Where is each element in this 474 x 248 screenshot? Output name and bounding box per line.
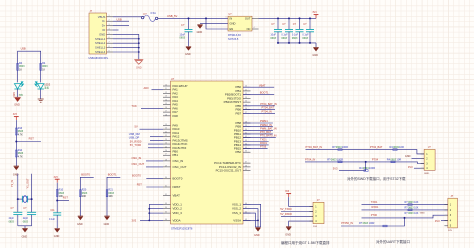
svg-text:C?: C? xyxy=(181,23,185,27)
wire cap bank bottom xyxy=(278,42,316,44)
MCU right pin names xyxy=(214,85,242,222)
wire pin2 xyxy=(412,158,425,160)
svg-text:20: 20 xyxy=(165,128,167,130)
svg-text:Y1_OUT: Y1_OUT xyxy=(25,178,29,189)
svg-text:3V3: 3V3 xyxy=(312,12,317,14)
svg-text:10K: 10K xyxy=(414,206,419,209)
svg-text:VSS_1: VSS_1 xyxy=(232,202,241,206)
svg-text:GND: GND xyxy=(197,31,203,34)
wire VDD bus xyxy=(140,219,163,221)
wire BOOT0 xyxy=(80,177,93,216)
svg-text:LED3: LED3 xyxy=(44,84,51,86)
svg-text:SOT23-5: SOT23-5 xyxy=(228,37,239,41)
wire SHELL1 xyxy=(113,38,139,40)
svg-text:PT06: PT06 xyxy=(371,213,378,217)
junction xyxy=(138,51,140,53)
wire PT04_BAT_IN xyxy=(243,105,275,107)
ground LED D2 xyxy=(38,99,44,102)
wire D+ xyxy=(113,25,129,27)
wire pin4 xyxy=(414,167,424,169)
junction xyxy=(148,208,150,210)
svg-text:RST: RST xyxy=(29,137,35,141)
resistor on SWDIO b xyxy=(393,149,397,151)
junction xyxy=(299,42,301,44)
svg-text:100R: 100R xyxy=(342,145,348,149)
svg-text:USB_DP: USB_DP xyxy=(129,136,140,140)
svg-text:22pF: 22pF xyxy=(23,218,29,220)
svg-text:0603: 0603 xyxy=(180,37,186,40)
svg-text:C?: C? xyxy=(293,22,297,26)
svg-text:GND: GND xyxy=(185,53,191,56)
svg-text:TCK: TCK xyxy=(132,104,137,108)
junction xyxy=(309,17,311,19)
junction xyxy=(148,212,150,214)
svg-text:10K: 10K xyxy=(108,195,113,198)
svg-text:10R: 10R xyxy=(396,158,401,162)
wire RXD1 xyxy=(243,144,269,146)
resistor R4 xyxy=(17,63,19,70)
svg-text:RXD1: RXD1 xyxy=(260,141,267,145)
wire VSS_1 xyxy=(243,204,261,227)
svg-text:对外的UART下载接口: 对外的UART下载接口 xyxy=(376,239,410,244)
wire 3V3 rail xyxy=(259,17,317,19)
svg-text:USB_DM: USB_DM xyxy=(129,132,140,136)
svg-text:STM32F103C8T6: STM32F103C8T6 xyxy=(171,226,193,230)
svg-text:RXD1: RXD1 xyxy=(372,205,379,209)
wire xyxy=(17,89,19,97)
svg-text:12: 12 xyxy=(165,92,167,94)
svg-text:29: 29 xyxy=(165,165,167,167)
svg-text:BOOT0: BOOT0 xyxy=(132,174,141,178)
svg-text:25: 25 xyxy=(165,146,167,148)
svg-text:PB1: PB1 xyxy=(173,153,179,157)
svg-text:RT9013-33: RT9013-33 xyxy=(228,33,241,37)
svg-text:10K: 10K xyxy=(414,201,419,204)
fuse F1 self-recovery xyxy=(141,15,157,21)
svg-text:OSC_OUT: OSC_OUT xyxy=(173,165,187,169)
svg-text:21: 21 xyxy=(245,89,247,91)
svg-text:SHELL2: SHELL2 xyxy=(95,41,106,45)
svg-text:3V3: 3V3 xyxy=(435,219,440,223)
svg-text:SHELL4: SHELL4 xyxy=(95,50,106,54)
wire fuse to regulator xyxy=(158,17,228,19)
svg-text:14: 14 xyxy=(165,99,167,101)
wire J3 pin4 xyxy=(289,221,313,227)
resistor J4 r2 xyxy=(408,209,412,211)
svg-text:GND: GND xyxy=(104,223,110,226)
svg-text:D+: D+ xyxy=(102,24,106,28)
svg-text:PB7: PB7 xyxy=(236,111,242,115)
capacitor C5 xyxy=(309,18,311,29)
svg-text:OSC_OUT: OSC_OUT xyxy=(132,162,145,166)
svg-text:D-: D- xyxy=(102,19,105,23)
LED D2 xyxy=(35,82,44,89)
svg-text:USB-MICRO-5PL: USB-MICRO-5PL xyxy=(89,57,109,60)
svg-text:Y1_IN: Y1_IN xyxy=(10,180,14,187)
svg-text:24: 24 xyxy=(165,143,167,145)
resistor R20 xyxy=(80,190,82,197)
svg-text:VDD_1: VDD_1 xyxy=(173,202,183,206)
capacitor C10 xyxy=(27,212,36,214)
svg-text:C?: C? xyxy=(282,22,286,26)
svg-text:100R: 100R xyxy=(369,222,375,225)
power 3V3 J3 xyxy=(285,191,291,197)
svg-text:13: 13 xyxy=(165,96,167,98)
wire to ground xyxy=(315,43,317,47)
svg-text:22pF: 22pF xyxy=(9,218,15,220)
wire xyxy=(40,89,42,99)
resistor on SWCLK b xyxy=(391,161,395,163)
ground crystal xyxy=(22,228,27,232)
wire ID stub xyxy=(113,29,119,31)
wire VSS rail xyxy=(255,226,260,228)
svg-text:0603: 0603 xyxy=(270,37,276,40)
svg-text:VSS_2: VSS_2 xyxy=(232,207,241,211)
ground divider xyxy=(14,166,19,170)
svg-text:21: 21 xyxy=(165,131,167,133)
resistor R14 xyxy=(15,150,17,157)
svg-text:10R: 10R xyxy=(399,145,404,149)
MCU right pin numbers xyxy=(245,86,247,221)
svg-text:PWM_BAT_IN: PWM_BAT_IN xyxy=(260,126,277,130)
wire J3 pin1 xyxy=(289,197,313,206)
svg-text:4: 4 xyxy=(109,28,110,30)
wire J4 pin1 xyxy=(362,204,448,206)
svg-text:38: 38 xyxy=(245,165,247,167)
pin stubs J4 xyxy=(444,205,448,226)
connector J2 SWD header xyxy=(424,149,435,170)
svg-text:17: 17 xyxy=(165,111,167,113)
svg-text:GND: GND xyxy=(136,67,142,70)
svg-text:PT04_BAT: PT04_BAT xyxy=(262,106,275,110)
svg-text:1: 1 xyxy=(109,15,110,17)
svg-text:0603: 0603 xyxy=(292,37,298,40)
svg-text:4: 4 xyxy=(254,27,255,29)
wire SHELL2 xyxy=(113,42,139,44)
svg-text:IN: IN xyxy=(230,17,233,21)
svg-text:PT04_IN: PT04_IN xyxy=(262,109,272,113)
MCU U3 body xyxy=(171,81,244,224)
svg-text:30: 30 xyxy=(165,177,167,179)
svg-text:PT04_IN: PT04_IN xyxy=(305,158,315,162)
svg-text:18: 18 xyxy=(165,114,167,116)
MCU right pin stubs xyxy=(243,87,251,220)
svg-text:32: 32 xyxy=(165,194,167,196)
wire PWM1 xyxy=(243,122,273,124)
wire J4 3V3 xyxy=(441,220,448,222)
svg-text:SWD: SWD xyxy=(424,173,430,175)
svg-text:19: 19 xyxy=(165,124,167,126)
svg-text:10K: 10K xyxy=(414,212,419,215)
svg-text:VSSA: VSSA xyxy=(233,218,241,222)
svg-text:100R: 100R xyxy=(369,166,375,170)
wire BOOT1 xyxy=(107,177,120,216)
pin stubs J2 xyxy=(421,154,425,168)
svg-text:5V_TXD0: 5V_TXD0 xyxy=(130,143,142,147)
wire USB_DP xyxy=(150,139,163,141)
svg-text:PT06: PT06 xyxy=(260,145,267,149)
svg-text:VDD_2: VDD_2 xyxy=(173,207,183,211)
svg-text:3V3: 3V3 xyxy=(285,191,290,193)
svg-text:3V3: 3V3 xyxy=(54,177,59,179)
svg-text:U5B: U5B xyxy=(21,46,26,50)
junction xyxy=(17,198,19,200)
svg-text:GND: GND xyxy=(254,234,260,237)
svg-text:ID: ID xyxy=(103,28,106,32)
svg-text:AD0: AD0 xyxy=(144,86,150,90)
svg-text:PT04: PT04 xyxy=(372,158,379,162)
junction xyxy=(299,17,301,19)
junction xyxy=(148,220,150,222)
svg-text:PB2: PB2 xyxy=(236,150,242,154)
capacitor C3 xyxy=(288,18,290,29)
resistor R13 xyxy=(15,128,17,135)
svg-text:GND: GND xyxy=(22,235,28,238)
svg-text:BOOT1: BOOT1 xyxy=(108,172,117,176)
svg-text:BOOT1: BOOT1 xyxy=(260,91,269,95)
junction xyxy=(188,17,190,19)
svg-text:7: 7 xyxy=(109,42,110,44)
svg-text:GND: GND xyxy=(77,223,83,226)
junction xyxy=(257,220,259,222)
junction xyxy=(31,198,33,200)
svg-text:3V3: 3V3 xyxy=(132,218,137,222)
wire PT06 xyxy=(243,148,268,150)
svg-text:BOOT0: BOOT0 xyxy=(81,172,90,176)
svg-text:U5B: U5B xyxy=(117,17,122,21)
wire OSC_IN xyxy=(146,160,163,162)
svg-text:0603: 0603 xyxy=(281,37,287,40)
svg-text:C11: C11 xyxy=(50,210,55,212)
svg-text:C?: C? xyxy=(303,22,307,26)
wire SHELL4 xyxy=(113,51,139,53)
resistor pullup xyxy=(364,170,368,172)
svg-text:0603: 0603 xyxy=(302,37,308,40)
LED D1 xyxy=(14,82,23,89)
wire PT04_BAT xyxy=(243,109,275,111)
svg-text:GND: GND xyxy=(285,233,291,236)
junction xyxy=(138,42,140,44)
connector J4 UART header xyxy=(448,198,458,228)
svg-text:GND: GND xyxy=(312,54,318,57)
svg-text:36: 36 xyxy=(245,151,247,153)
svg-text:28: 28 xyxy=(165,159,167,161)
capacitor C1 xyxy=(188,18,190,29)
junction xyxy=(288,42,290,44)
wire PT0_BAT0_IN xyxy=(243,137,276,139)
svg-text:TXD1: TXD1 xyxy=(371,200,378,204)
junction xyxy=(404,217,406,219)
wire reg GND pin xyxy=(200,23,228,25)
svg-text:1K: 1K xyxy=(42,69,45,72)
svg-text:1: 1 xyxy=(226,17,227,19)
svg-text:31: 31 xyxy=(165,186,167,188)
svg-text:PWR: PWR xyxy=(14,92,16,98)
svg-text:4.7K: 4.7K xyxy=(18,156,23,159)
svg-text:11: 11 xyxy=(165,88,167,90)
junction xyxy=(277,42,279,44)
MCU left pin names xyxy=(173,84,188,222)
ground C1 xyxy=(186,47,191,51)
svg-text:USB_5V: USB_5V xyxy=(167,14,178,18)
wire RC xyxy=(56,183,58,201)
wire J4 pin3 xyxy=(362,215,448,218)
svg-text:PT050_IN: PT050_IN xyxy=(341,221,353,225)
svg-text:SHELL3: SHELL3 xyxy=(95,46,106,50)
crystal Y1 xyxy=(18,198,23,200)
wire BOOT1 xyxy=(243,94,274,96)
svg-text:36: 36 xyxy=(165,219,167,221)
svg-text:4.7K: 4.7K xyxy=(18,134,23,137)
svg-text:3: 3 xyxy=(109,24,110,26)
svg-text:5V_RXD0: 5V_RXD0 xyxy=(280,212,292,216)
svg-text:OSC_IN: OSC_IN xyxy=(132,156,142,160)
wire RST branch xyxy=(57,200,69,202)
junction xyxy=(56,200,58,202)
svg-text:9: 9 xyxy=(109,50,110,52)
svg-text:PC15-OSC32_OUT: PC15-OSC32_OUT xyxy=(216,169,242,173)
svg-text:22: 22 xyxy=(165,135,167,137)
wire SHELL3 xyxy=(113,47,139,49)
wire RST tap xyxy=(16,141,41,143)
svg-text:10K: 10K xyxy=(82,195,87,198)
svg-text:GND: GND xyxy=(14,104,20,107)
wire SWCLK xyxy=(305,162,424,164)
power 3V3 RC xyxy=(54,177,60,183)
wire 5V xyxy=(140,128,164,130)
junction xyxy=(138,47,140,49)
svg-text:PA8: PA8 xyxy=(173,114,179,118)
svg-text:PT04_BAT_IN: PT04_BAT_IN xyxy=(260,102,277,106)
svg-text:3V3: 3V3 xyxy=(333,167,338,171)
svg-text:0603: 0603 xyxy=(23,221,29,223)
wire PT0_BAT xyxy=(243,133,273,135)
capacitor C11 xyxy=(56,201,58,213)
svg-text:VSS_3: VSS_3 xyxy=(232,211,241,215)
capacitor C9 xyxy=(13,212,22,214)
wire J3 pin2 xyxy=(281,211,313,213)
svg-text:NC: NC xyxy=(247,27,251,31)
wire TCK xyxy=(141,107,163,109)
svg-text:5V_RXD0: 5V_RXD0 xyxy=(130,139,142,143)
svg-text:PT04_BAT_IN: PT04_BAT_IN xyxy=(306,145,323,149)
svg-text:3V3: 3V3 xyxy=(408,165,413,169)
wire 3V3 pullup xyxy=(339,162,366,171)
svg-text:2: 2 xyxy=(109,20,110,22)
MCU left pin stubs xyxy=(163,86,171,220)
junction xyxy=(15,141,17,143)
junction xyxy=(138,38,140,40)
wire VBAT xyxy=(243,86,274,88)
svg-text:BOOT0: BOOT0 xyxy=(173,176,183,180)
wire 5V_RXD0 xyxy=(148,143,163,145)
resistor R10 xyxy=(56,190,58,197)
svg-text:OSC_IN: OSC_IN xyxy=(173,159,184,163)
svg-text:VBAT: VBAT xyxy=(173,194,181,198)
ground J1 shell xyxy=(134,60,143,65)
svg-text:C?: C? xyxy=(271,22,275,26)
power 3V3 rail xyxy=(312,12,318,18)
ground LED D1 xyxy=(14,97,20,101)
svg-text:PT0_BAT0_IN: PT0_BAT0_IN xyxy=(260,134,277,138)
svg-text:PT04_BAT: PT04_BAT xyxy=(370,145,383,149)
wire RST mcu xyxy=(146,186,163,188)
svg-text:16: 16 xyxy=(165,107,167,109)
wire J4 pin4 merge xyxy=(341,218,405,226)
ground VSS xyxy=(255,227,260,231)
wire GND of J1 xyxy=(113,34,139,59)
wire TXD1 xyxy=(243,140,269,142)
svg-text:24: 24 xyxy=(245,101,247,103)
svg-text:VBAT: VBAT xyxy=(259,83,266,87)
svg-text:PWM2_IN: PWM2_IN xyxy=(260,123,272,127)
wire VBUS to switch xyxy=(113,16,141,18)
svg-text:5: 5 xyxy=(109,33,110,35)
junction xyxy=(365,161,367,163)
svg-text:34: 34 xyxy=(165,207,167,209)
svg-text:GND: GND xyxy=(54,235,60,238)
wire crystal left xyxy=(17,174,19,213)
svg-text:RST: RST xyxy=(63,196,69,200)
wire crystal gnd rail xyxy=(18,225,32,227)
wire PA1 xyxy=(152,89,164,91)
pin numbers J1 xyxy=(109,15,110,52)
wire PT04_IN xyxy=(243,112,275,114)
junction xyxy=(288,17,290,19)
wire divider xyxy=(15,120,17,166)
svg-text:23: 23 xyxy=(245,97,247,99)
svg-text:5V: 5V xyxy=(135,124,138,128)
svg-text:SHELL1: SHELL1 xyxy=(95,37,106,41)
connector J3 program header xyxy=(313,202,324,223)
pin stubs J3 xyxy=(310,206,314,221)
svg-text:0.5A: 0.5A xyxy=(151,11,157,15)
ground RC xyxy=(55,228,60,232)
wire LED feed xyxy=(18,51,41,82)
svg-text:35: 35 xyxy=(165,212,167,214)
wire crystal right xyxy=(31,174,33,213)
wire SWDIO xyxy=(306,150,425,154)
wire D- xyxy=(113,20,129,22)
svg-text:PT0_BAT: PT0_BAT xyxy=(260,130,271,134)
resistor R5 xyxy=(40,63,42,70)
resistor J4 r1 xyxy=(408,204,412,206)
wire PWM2_IN xyxy=(243,126,273,128)
svg-text:PWM1: PWM1 xyxy=(260,119,268,123)
wire VSSA xyxy=(243,219,258,221)
svg-text:26: 26 xyxy=(165,150,167,152)
svg-text:37: 37 xyxy=(245,162,247,164)
svg-text:GND: GND xyxy=(230,22,236,26)
svg-text:15: 15 xyxy=(165,103,167,105)
svg-text:编程口用于烧GT 1.5M下载直排: 编程口用于烧GT 1.5M下载直排 xyxy=(281,240,330,245)
wire EN xyxy=(206,18,228,29)
svg-text:TXD1: TXD1 xyxy=(260,137,267,141)
svg-text:OUT: OUT xyxy=(245,17,251,21)
capacitor C4 xyxy=(299,18,301,29)
svg-text:0603: 0603 xyxy=(9,221,15,223)
connector J1 micro-USB socket xyxy=(89,13,107,54)
pin stubs J1 xyxy=(107,17,114,52)
wire VSS_3 xyxy=(243,213,255,227)
ground regulator xyxy=(197,25,202,29)
wire J4 pin2 xyxy=(362,209,448,211)
junction xyxy=(277,17,279,19)
ground BOOT0 xyxy=(78,216,83,220)
wire OSC_OUT xyxy=(146,166,163,168)
svg-text:GND: GND xyxy=(420,212,425,214)
svg-text:10: 10 xyxy=(165,85,167,87)
